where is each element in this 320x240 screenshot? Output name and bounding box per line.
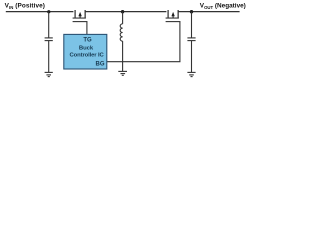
transistor Q1 (high-side FET driven by TG) (73, 10, 88, 22)
svg-text:TG: TG (83, 38, 92, 44)
wire top rail right segment (Q2 drain to Vout) (178, 11, 239, 13)
wire input cap lower lead (48, 41, 50, 72)
node Vout junction (dot at output cap) (190, 10, 193, 13)
wire input cap upper lead (48, 12, 50, 38)
wire output cap upper lead (191, 12, 193, 38)
capacitor C2 (output capacitor plates) (187, 38, 195, 41)
ground (input cap ground symbol) (45, 72, 53, 76)
wire output cap lower lead (191, 41, 193, 72)
transistor Q2 (low-side FET driven by BG) (166, 10, 181, 22)
wire TG gate lead (Q1 gate down to IC TG pin) (86, 22, 88, 35)
svg-text:VOUT (Negative): VOUT (Negative) (200, 2, 246, 10)
svg-text:VIN (Positive): VIN (Positive) (5, 2, 45, 10)
wire BG trace horizontal (IC BG pin to Q2 gate) (107, 61, 181, 63)
wire BG gate lead (Q2 gate down to BG trace) (179, 22, 181, 62)
inductor L1 (coil) (120, 24, 122, 41)
wire inductor upper lead (SW node down) (122, 12, 124, 24)
IC U1 Buck Controller box (64, 34, 107, 69)
node Vin junction (dot at input cap) (47, 10, 50, 13)
wire top rail left segment (Vin to Q1 source) (6, 11, 74, 13)
svg-text:BG: BG (96, 61, 105, 67)
node SW junction (dot at inductor) (121, 10, 124, 13)
capacitor C1 (input capacitor plates) (45, 38, 53, 41)
svg-text:Buck: Buck (79, 45, 94, 51)
ground (output cap ground symbol) (187, 72, 195, 76)
wire top rail middle segment (Q1 drain to Q2 source, SW node) (85, 11, 166, 13)
wire inductor lower lead (crosses BG trace, no junction) (122, 41, 124, 71)
svg-text:Controller IC: Controller IC (70, 53, 105, 59)
ground (inductor return ground symbol) (118, 71, 127, 75)
